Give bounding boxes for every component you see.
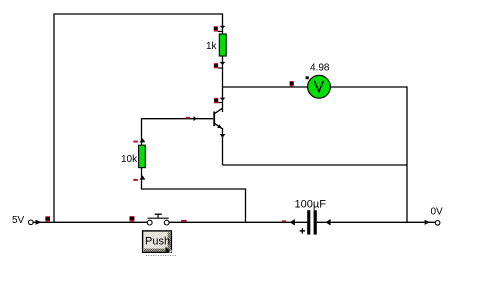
wire left vertical from 5V rail up (53, 14, 55, 222)
dotted shadow line under button (146, 255, 177, 257)
stub from collector node to wire (218, 102, 222, 104)
wire junction vertical down to bottom rail (245, 188, 247, 222)
svg-text:1k: 1k (206, 41, 218, 52)
wire emitter horizontal to right vertical (223, 164, 408, 166)
switch SW1 right contact circle (164, 220, 169, 225)
wire base horizontal (142, 118, 214, 120)
voltmeter plus dot (306, 76, 309, 79)
red dash at 10k bottom (133, 179, 138, 181)
switch SW1 cap (155, 213, 162, 215)
red dash right of switch (181, 220, 187, 222)
transistor Q1 collector diagonal (215, 108, 223, 113)
arrow down at collector (220, 98, 226, 101)
arrow down on emitter wire (220, 134, 226, 138)
svg-text:10k: 10k (121, 154, 138, 165)
capacitor C1 right plate (314, 210, 317, 234)
capacitor plus sign (300, 228, 305, 233)
transistor Q1 bar (213, 112, 215, 127)
wire emitter vertical (222, 128, 224, 165)
wire collector vertical top (into 1k) (222, 13, 224, 34)
wire base corner down to 10k (141, 118, 143, 146)
wire below 10k (141, 168, 143, 189)
wire top horizontal (53, 13, 222, 15)
node at switch left pin (130, 216, 135, 221)
wire 10k bottom horizontal to junction (141, 188, 246, 190)
node at 5V pin (45, 216, 50, 222)
arrow down below 1k (220, 62, 226, 65)
arrow right at 5V (36, 220, 42, 225)
wire voltmeter horizontal left (223, 86, 308, 88)
node at 1k top pin (214, 26, 218, 31)
switch SW1 bridge bar (148, 217, 169, 219)
arrow left at capacitor left (290, 219, 295, 226)
transistor Q1 emitter diagonal (215, 124, 223, 129)
push button graphic (143, 231, 172, 253)
capacitor C1 left plate (307, 210, 310, 234)
arrow up below 10k (140, 175, 146, 179)
arrow right at 0V (425, 220, 430, 225)
wire bottom rail right (317, 221, 436, 223)
node at transistor collector pin (214, 98, 218, 104)
resistor R2 10k body (139, 145, 146, 167)
node at 1k bottom pin (214, 63, 218, 68)
svg-text:5V: 5V (12, 215, 25, 226)
wire right vertical (406, 86, 408, 222)
arrow left at capacitor right (326, 219, 331, 226)
stub from 1k top node to wire (218, 30, 223, 32)
wire bottom rail left (33, 221, 147, 223)
switch SW1 left contact circle (147, 220, 152, 225)
terminal 5V circle (29, 220, 34, 225)
switch SW1 stem (157, 214, 159, 218)
stub from 1k bottom node to wire (218, 67, 222, 69)
wire below 1k (222, 56, 224, 112)
arrow up above 10k (140, 138, 146, 142)
wire voltmeter horizontal right (330, 86, 407, 88)
resistor R1 1k body (219, 34, 226, 56)
red dash at 10k top (133, 141, 138, 143)
terminal 0V circle (435, 221, 440, 226)
voltmeter V glyph (314, 81, 323, 92)
transistor Q1 emitter arrowhead (217, 124, 222, 128)
arrow down above 1k (220, 26, 226, 29)
arrow right on base wire (194, 116, 197, 121)
svg-text:Push: Push (145, 236, 170, 248)
voltmeter M1 body (308, 75, 331, 98)
red dash left of capacitor (282, 220, 286, 222)
svg-text:0V: 0V (431, 206, 444, 217)
svg-text:4.98: 4.98 (310, 63, 330, 74)
wire bottom rail middle (169, 221, 307, 223)
node at voltmeter left pin (290, 81, 294, 86)
red dash on base wire (186, 117, 190, 119)
svg-text:100µF: 100µF (295, 199, 327, 211)
